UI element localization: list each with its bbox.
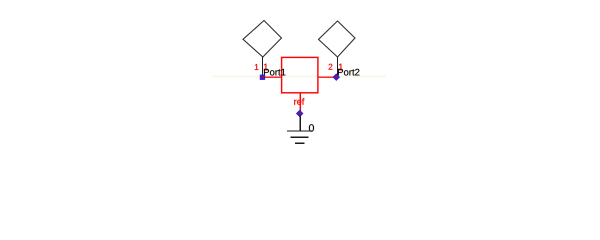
ground net label 0 <box>309 124 314 132</box>
port symbol Port2 (diamond) <box>319 21 356 57</box>
pin 1 of block <box>263 76 282 78</box>
pin number 2 (red) <box>329 64 333 70</box>
wire highlighted net (faint cream) <box>213 75 387 77</box>
ground bar 3 <box>295 142 304 144</box>
wire node ref to ground <box>299 116 301 132</box>
label Port2 <box>338 69 359 76</box>
S-parameter block U1 (red box) <box>282 57 318 92</box>
net number 1 right (red) <box>339 64 343 71</box>
node ref junction (blue) <box>296 110 303 117</box>
port symbol Port1 (diamond) <box>243 21 282 58</box>
net number 1 (red) <box>264 64 268 71</box>
node 1 junction (blue) <box>260 75 265 80</box>
wire from Port1 to node 1 <box>262 57 264 76</box>
pin name ref (red) <box>294 98 304 105</box>
pin 2 of block <box>318 76 336 78</box>
ground bar 2 <box>291 136 309 138</box>
pin number 1 (red) <box>255 64 259 70</box>
pin ref of block <box>299 93 301 114</box>
wire from Port2 to node 2 <box>336 57 338 75</box>
ground bar 1 <box>287 130 313 132</box>
label Port1 <box>264 69 285 76</box>
node 2 junction (blue) <box>333 73 340 80</box>
